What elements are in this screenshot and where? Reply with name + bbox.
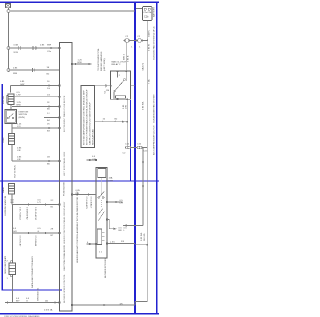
arrow on G3 xyxy=(51,47,54,49)
svg-text:FUSE BLOCK: FUSE BLOCK xyxy=(64,182,66,196)
connector D3 xyxy=(9,184,15,195)
wire W219 jog xyxy=(107,220,116,229)
arrow on W85 xyxy=(49,84,52,86)
wire blue right border xyxy=(156,2,158,314)
svg-text:0.5 L/Y AC12: 0.5 L/Y AC12 xyxy=(19,207,22,221)
arrow down on branch xyxy=(142,162,144,165)
fuse F1 inline ticks xyxy=(18,46,21,50)
svg-text:0.5 G/O A7: 0.5 G/O A7 xyxy=(19,236,22,248)
fuse F2 circle xyxy=(125,39,129,43)
wire W147 crossing horizontal xyxy=(127,147,147,149)
relay contact xyxy=(115,80,124,91)
wire W2 fuse row horizontal xyxy=(124,40,148,42)
connector D5 xyxy=(9,261,16,277)
svg-text:BLOWER SW ASSY: BLOWER SW ASSY xyxy=(4,196,7,216)
node junction dot top xyxy=(146,40,148,42)
connector C2 circles pair xyxy=(137,146,140,149)
svg-text:WITHOUT POWERTRAIN CONTROL MOD: WITHOUT POWERTRAIN CONTROL MODULE GROUP xyxy=(86,89,89,145)
wire W9 horizontal xyxy=(72,63,92,65)
svg-text:JUNCTION CONN BLOCK: JUNCTION CONN BLOCK xyxy=(64,244,66,271)
wire relay to divider xyxy=(131,84,136,86)
svg-text:LEFT KICK PANEL SIDE: LEFT KICK PANEL SIDE xyxy=(63,151,66,176)
node C junction circle xyxy=(7,69,10,72)
wire blue main vertical divider xyxy=(134,2,136,314)
wire W160 stub xyxy=(87,159,97,161)
switch box E double border xyxy=(5,110,17,124)
svg-text:30A FL: 30A FL xyxy=(147,29,150,37)
switch contacts in H xyxy=(98,197,100,199)
svg-text:A/C COMPRESSOR CLUTCH: A/C COMPRESSOR CLUTCH xyxy=(153,125,156,155)
wire W202 stub xyxy=(107,201,123,203)
wire W85 horizontal xyxy=(11,86,60,93)
dashed link in H xyxy=(101,179,103,197)
svg-text:15A: 15A xyxy=(109,177,113,180)
wire main right vertical xyxy=(146,21,148,302)
svg-text:L/R: L/R xyxy=(120,203,124,205)
arrow right end W9 xyxy=(89,63,92,65)
svg-text:HTR: HTR xyxy=(109,180,114,182)
wire W128 horizontal xyxy=(12,124,60,129)
wire bus G2 vertical xyxy=(8,8,10,70)
arrow on W204 xyxy=(28,203,31,205)
arrow on W106 xyxy=(49,105,52,107)
wire W8 bottom horizontal xyxy=(72,302,147,306)
wire battery stub xyxy=(136,8,143,10)
svg-text:IGN SW: IGN SW xyxy=(3,95,5,104)
svg-text:0.85 W: 0.85 W xyxy=(149,43,151,51)
blower box H xyxy=(96,168,107,259)
svg-text:HOT IN RUN: HOT IN RUN xyxy=(15,165,17,178)
svg-text:0.5 B 2A: 0.5 B 2A xyxy=(44,309,53,312)
relay pins xyxy=(110,70,128,100)
wire right-margin branch vertical xyxy=(123,148,143,226)
switch 2 in box H xyxy=(98,209,104,222)
svg-text:(LEFT SIDE): (LEFT SIDE) xyxy=(104,58,106,71)
relay coil xyxy=(116,96,126,99)
arrow right on W219 xyxy=(113,228,116,230)
svg-text:a 3 b: a 3 b xyxy=(110,241,116,243)
connector symbol on G3 xyxy=(33,46,36,50)
svg-text:CONDENSER FAN SYSTEM: CONDENSER FAN SYSTEM xyxy=(153,94,156,123)
wire W204 horizontal xyxy=(12,194,60,205)
connector D1 xyxy=(7,94,14,105)
svg-text:C2aC2b: C2aC2b xyxy=(143,12,152,14)
svg-text:DATA LINK CONNECTOR ASSY: DATA LINK CONNECTOR ASSY xyxy=(31,256,34,288)
wire W4 horizontal xyxy=(107,244,147,245)
node top-left connector xyxy=(6,4,11,8)
arrow left on W302 xyxy=(5,301,8,303)
svg-text:BATTERY: BATTERY xyxy=(152,7,155,17)
svg-text:JOINT: JOINT xyxy=(3,136,5,143)
arrow left on W5 xyxy=(87,243,90,245)
arrow on W161 xyxy=(49,160,52,162)
svg-text:0.85 W/L: 0.85 W/L xyxy=(143,100,145,110)
svg-text:CAB PLUS CONTROL UNIT ASSY GRO: CAB PLUS CONTROL UNIT ASSY GROUP xyxy=(89,102,92,145)
svg-text:HEATER AND A/C CONTROL ASSEMBL: HEATER AND A/C CONTROL ASSEMBLY WITH BLO… xyxy=(76,191,79,263)
arrow on W202 xyxy=(116,201,119,203)
svg-text:0.5 L/W AC5: 0.5 L/W AC5 xyxy=(85,197,88,210)
svg-text:L/Y: L/Y xyxy=(38,202,42,204)
svg-text:1G: 1G xyxy=(47,95,50,97)
connector symbol on G4 xyxy=(33,68,35,72)
wire blue bottom-left divider xyxy=(2,289,62,291)
wire W10 horizontal xyxy=(72,194,96,196)
wire blue top border xyxy=(0,1,159,3)
wire bus G1 horizontal xyxy=(9,10,136,12)
wire blue left border xyxy=(1,84,3,291)
svg-text:W/R: W/R xyxy=(47,44,52,46)
pins box A right edge xyxy=(71,63,73,65)
svg-text:B/W 2: B/W 2 xyxy=(123,53,125,60)
svg-text:G: G xyxy=(26,300,28,302)
svg-text:TO INSTRUMENT PNL: TO INSTRUMENT PNL xyxy=(98,47,100,71)
svg-text:RELAY 2: RELAY 2 xyxy=(112,63,122,66)
node A junction circle xyxy=(7,10,10,13)
svg-text:0.85 B: 0.85 B xyxy=(128,55,130,62)
wire blue bottom border xyxy=(0,313,159,315)
arrow on W204 b xyxy=(45,203,48,205)
svg-text:(RUN): (RUN) xyxy=(19,117,25,119)
connector D2 xyxy=(9,134,15,145)
wire W5 stub xyxy=(87,243,97,245)
svg-text:DASH: DASH xyxy=(2,187,5,193)
connector C1 circles pair xyxy=(126,146,129,149)
wire blue short vertical divider xyxy=(130,100,132,181)
svg-text:INSTRUMENT PANEL FUSE BLOCK: INSTRUMENT PANEL FUSE BLOCK xyxy=(63,95,66,132)
svg-text:7.5A: 7.5A xyxy=(148,79,151,84)
svg-text:G/O: G/O xyxy=(13,231,17,233)
svg-text:1M: 1M xyxy=(106,90,109,92)
svg-text:BR: BR xyxy=(119,230,122,232)
battery module box xyxy=(143,7,153,21)
arrow right on W10 xyxy=(88,193,91,195)
arrow right on W3 xyxy=(122,121,125,123)
wire relay output vertical xyxy=(126,99,128,147)
wire W96 stub xyxy=(14,96,60,98)
wire W237 horizontal xyxy=(13,232,60,234)
svg-text:L/R: L/R xyxy=(17,150,21,152)
fuse F3 circle xyxy=(138,39,142,43)
svg-text:BR: BR xyxy=(11,202,14,204)
arrow left on branch xyxy=(124,224,127,226)
resistor sub-box in H xyxy=(97,229,102,245)
svg-text:1G: 1G xyxy=(47,88,50,90)
fuse sub-box in H xyxy=(98,169,106,178)
svg-text:6A (CT): 6A (CT) xyxy=(142,63,145,71)
svg-text:3B 0.85: 3B 0.85 xyxy=(144,233,146,241)
arrow on W128 xyxy=(49,127,52,129)
arrow on W237 b xyxy=(45,232,48,234)
svg-text:L/R: L/R xyxy=(17,159,21,161)
svg-text:WITH A/C AMPLIFIER ASSY CONTRO: WITH A/C AMPLIFIER ASSY CONTROL MODULE G… xyxy=(83,90,86,145)
svg-text:G: G xyxy=(38,231,40,233)
arrow left on W160 xyxy=(87,159,90,161)
svg-text:1J: 1J xyxy=(47,113,49,115)
wire relay feed vertical xyxy=(125,41,127,72)
node junction dot bottom xyxy=(146,244,148,246)
wire W106 horizontal xyxy=(11,105,60,110)
svg-text:HEATER CONTROL PANEL GROUP ASS: HEATER CONTROL PANEL GROUP ASSY xyxy=(63,201,66,244)
fuse block box A xyxy=(60,43,73,312)
svg-text:REGULAR CAB: REGULAR CAB xyxy=(92,129,95,145)
wire W3 horizontal xyxy=(95,121,128,123)
svg-text:W15: W15 xyxy=(14,52,19,54)
wire W117 stub xyxy=(44,117,60,119)
svg-text:W/B: W/B xyxy=(13,73,18,75)
svg-text:2C: 2C xyxy=(51,200,54,202)
svg-text:C2b: C2b xyxy=(144,16,149,19)
svg-text:1: 1 xyxy=(121,83,122,85)
wire blue horizontal divider xyxy=(0,180,159,182)
relay box U1 xyxy=(111,71,131,99)
svg-text:0.5 BR/W A2: 0.5 BR/W A2 xyxy=(26,207,29,220)
wire W11 horizontal xyxy=(95,85,111,87)
svg-text:2: 2 xyxy=(119,75,120,77)
svg-text:0.85 W/L: 0.85 W/L xyxy=(141,231,143,241)
wire G4 horizontal xyxy=(9,69,60,71)
svg-text:DATA LINK CONN: DATA LINK CONN xyxy=(4,256,7,274)
arrow into box A on W9 xyxy=(73,63,76,65)
pins box H xyxy=(95,159,108,245)
wire left column vertical xyxy=(12,205,14,303)
wire W161 horizontal xyxy=(12,160,60,162)
svg-text:BLOWER SPEED CONTROL: BLOWER SPEED CONTROL xyxy=(64,273,66,303)
module box B xyxy=(81,86,95,148)
arrow on W237 xyxy=(28,232,31,234)
wire G3 horizontal xyxy=(9,47,60,49)
arrow right on W302 xyxy=(55,301,58,303)
node B junction circle xyxy=(7,47,10,50)
relay pin stubs xyxy=(114,71,126,99)
svg-text:L/O: L/O xyxy=(17,126,21,128)
svg-text:B/Y: B/Y xyxy=(16,300,20,302)
svg-text:GROUND G1: GROUND G1 xyxy=(38,287,40,301)
svg-text:WIRING HARNESS: WIRING HARNESS xyxy=(100,51,103,71)
svg-text:0.5 G/B A9: 0.5 G/B A9 xyxy=(34,236,37,247)
arrow right on W8 xyxy=(103,304,106,307)
pins box A left edge xyxy=(58,47,60,49)
svg-text:0.5B: 0.5B xyxy=(14,45,19,47)
svg-text:L/B: L/B xyxy=(76,193,80,195)
svg-text:BLOWER MTR RES: BLOWER MTR RES xyxy=(105,258,107,278)
wire W302 bottom horizontal xyxy=(5,302,60,304)
svg-text:0.5 L/R AC10: 0.5 L/R AC10 xyxy=(34,207,37,221)
battery terminals xyxy=(144,8,146,10)
svg-text:0.5 L/B AC7: 0.5 L/B AC7 xyxy=(90,197,93,209)
svg-text:COOLING FAN SYSTEM (2 OF 2): COOLING FAN SYSTEM (2 OF 2) xyxy=(153,26,156,60)
node junction W3 xyxy=(126,121,128,123)
connector tick on W11 xyxy=(106,84,107,88)
